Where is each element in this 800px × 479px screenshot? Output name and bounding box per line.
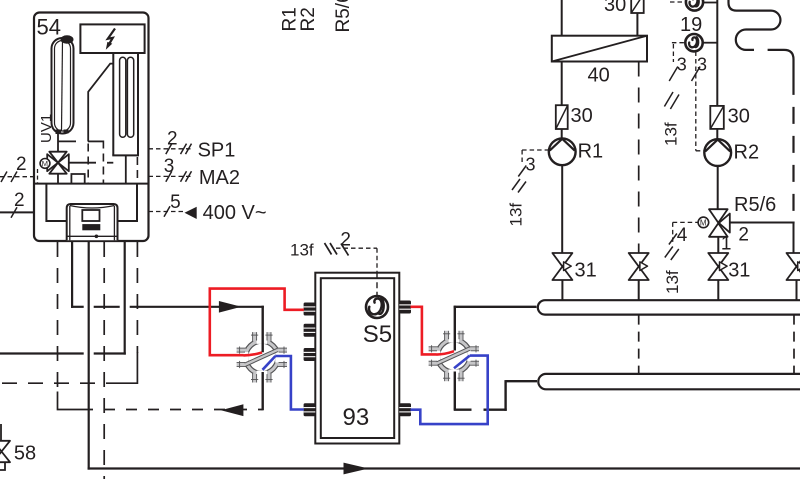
svg-text:1: 1 bbox=[721, 233, 732, 254]
pipe below filter to hx40 bbox=[636, 13, 638, 37]
svg-text:SP1: SP1 bbox=[198, 139, 236, 161]
svg-text:93: 93 bbox=[343, 404, 370, 431]
svg-text:30: 30 bbox=[571, 105, 593, 127]
dashed stub below tank right wall bbox=[136, 157, 138, 184]
return pipe exiting left bbox=[0, 352, 126, 354]
label S5 bbox=[363, 321, 392, 348]
drop line 4 dashed bbox=[103, 242, 105, 479]
heat exchanger coupling left bbox=[237, 332, 287, 382]
pipe R5/6 port 1 down bbox=[717, 237, 719, 254]
pipe line to heat exchanger 40 (left) bbox=[561, 0, 563, 37]
red pipe left loop bbox=[210, 289, 304, 356]
rotated label R1 (top) bbox=[280, 7, 301, 31]
lightning bolt bbox=[106, 29, 115, 50]
svg-text:2: 2 bbox=[14, 190, 25, 211]
motor M of UV1 bbox=[40, 159, 50, 169]
compressor bbox=[67, 204, 118, 240]
svg-text:400 V~: 400 V~ bbox=[203, 202, 267, 224]
black pipe from left exchanger bottom bbox=[262, 372, 264, 410]
compartment pipe left bbox=[46, 184, 66, 222]
header pipe 2 (return manifold) bbox=[538, 374, 800, 389]
connection SP1 bbox=[149, 129, 236, 162]
label UV1 bbox=[38, 114, 55, 143]
dashed return line with left arrow bbox=[82, 404, 263, 416]
label 93 bbox=[343, 404, 370, 431]
connection 400 V~ bbox=[149, 192, 267, 224]
pipe R5/6 port 2 to right bbox=[730, 223, 795, 255]
motor M of R5/6 bbox=[698, 217, 709, 228]
svg-text:13f: 13f bbox=[663, 270, 682, 294]
pump R1 bbox=[549, 129, 603, 165]
svg-text:13f: 13f bbox=[662, 122, 681, 146]
pipe bump inside compartment bbox=[71, 174, 84, 184]
drop line 6 dashed bbox=[121, 242, 137, 383]
connection MA2 bbox=[149, 156, 241, 189]
main pipe right branch bbox=[716, 0, 718, 106]
svg-text:19: 19 bbox=[680, 14, 702, 36]
svg-text:3: 3 bbox=[677, 54, 687, 74]
compartment pipe right bbox=[118, 184, 138, 222]
rotated label R2 (top) bbox=[298, 7, 319, 31]
mixing valve R5/6 bbox=[709, 194, 776, 254]
pool unit box 93 bbox=[315, 273, 399, 444]
pipe from tank bottom bbox=[125, 155, 127, 183]
svg-text:2: 2 bbox=[340, 230, 351, 251]
internal dashed vertical x103 bbox=[102, 141, 104, 184]
pump R2 bbox=[704, 129, 759, 166]
supply pipe to left exchanger with right arrow bbox=[71, 301, 264, 313]
svg-text:31: 31 bbox=[575, 260, 597, 282]
UV1 right port pipe bbox=[69, 162, 114, 164]
heater rod 1 bbox=[120, 57, 126, 137]
nipple left 2 bbox=[304, 324, 316, 337]
sensor 19 lower bbox=[672, 34, 717, 51]
pipe valve to header 1 bbox=[561, 280, 563, 301]
svg-text:R5/6: R5/6 bbox=[734, 194, 776, 216]
nipple left 1 bbox=[304, 303, 316, 316]
svg-text:R1: R1 bbox=[578, 140, 604, 162]
nipple right 1 bbox=[399, 301, 411, 314]
vessel (accumulator) bbox=[52, 35, 74, 134]
svg-text:30: 30 bbox=[604, 0, 626, 16]
svg-text:R2: R2 bbox=[734, 141, 760, 163]
filter 30 (above pump R1) bbox=[556, 105, 593, 129]
control cable 13f/4 to R5/6 bbox=[663, 222, 698, 294]
svg-text:4: 4 bbox=[677, 225, 688, 246]
svg-text:30: 30 bbox=[728, 106, 750, 128]
svg-text:58: 58 bbox=[14, 442, 36, 464]
connection 2 (left, solid pipe) bbox=[0, 190, 34, 218]
pipe valve to header 1 (right) bbox=[717, 280, 719, 301]
shut-off valve 31 (below R5/6) bbox=[708, 253, 750, 282]
dashed boundary between headers (middle) bbox=[638, 315, 640, 374]
heating coil bbox=[729, 0, 794, 212]
dashed boundary between headers (right) bbox=[793, 315, 795, 374]
sensor cable 13f/3 (left, to label) bbox=[662, 44, 687, 146]
pipe valve to header 1 (middle) bbox=[638, 280, 640, 301]
svg-text:2: 2 bbox=[167, 129, 178, 150]
heater rod 2 bbox=[127, 57, 133, 137]
svg-text:R5/6: R5/6 bbox=[333, 0, 354, 33]
svg-text:S5: S5 bbox=[363, 321, 392, 348]
drop line 3 solid (to bottom pipe) bbox=[88, 242, 90, 470]
blue pipe left side bbox=[263, 356, 304, 410]
nipple left 3 bbox=[304, 348, 316, 361]
control cable 13f/2 above box 93 bbox=[290, 230, 377, 273]
svg-text:13f: 13f bbox=[290, 241, 314, 260]
pipe pump R1 down to valve bbox=[561, 165, 563, 254]
header pipe 1 (supply manifold) bbox=[538, 300, 800, 314]
dashed pipe from hx40 right down bbox=[638, 62, 640, 255]
shut-off valve (far right) bbox=[787, 253, 800, 280]
svg-text:MA2: MA2 bbox=[199, 167, 240, 189]
black pipe from right exchanger bottom to header 2 bbox=[454, 372, 537, 411]
black pipe into left exchanger top bbox=[262, 306, 264, 353]
svg-text:31: 31 bbox=[728, 260, 750, 282]
nipple right 2 bbox=[399, 403, 411, 416]
svg-text:5: 5 bbox=[170, 192, 181, 213]
pipe hx40 to filter 30 bbox=[561, 62, 563, 106]
sensor S5 bbox=[366, 273, 388, 318]
shut-off valve (middle, unlabeled) bbox=[629, 253, 649, 280]
svg-text:M: M bbox=[42, 159, 48, 168]
svg-text:R2: R2 bbox=[298, 7, 319, 31]
heat pump unit 54 outer box bbox=[34, 13, 149, 242]
pipe to heater tank (diagonal) bbox=[88, 64, 113, 142]
immersion heater tank bbox=[112, 53, 139, 155]
safety valve 58 bbox=[0, 424, 36, 470]
red pipe right side bbox=[411, 307, 455, 355]
dashed line exiting left at y383 bbox=[0, 382, 121, 384]
filter 30 (above pump R2) bbox=[710, 106, 750, 129]
sensor 19 top bbox=[670, 0, 717, 36]
heat exchanger 40 bbox=[552, 36, 647, 87]
svg-text:54: 54 bbox=[37, 15, 61, 40]
blue pipe right side bbox=[411, 356, 488, 425]
filter 30 (top, on right line) bbox=[604, 0, 644, 16]
nipple left 4 bbox=[304, 403, 316, 416]
valve UV1 (3-way motor valve) bbox=[47, 134, 69, 184]
electric heater box bbox=[80, 24, 144, 53]
connection 2 (left, electrical dashed) bbox=[0, 154, 34, 182]
label 54 bbox=[37, 15, 61, 40]
drop line 5 solid bbox=[124, 242, 126, 355]
svg-text:2: 2 bbox=[16, 154, 27, 175]
svg-text:3: 3 bbox=[526, 155, 536, 175]
svg-text:13f: 13f bbox=[507, 203, 526, 227]
drop line 2 solid bbox=[71, 242, 73, 308]
bottom pipe with right arrow bbox=[88, 463, 800, 475]
pipe far right valve to header 1 bbox=[796, 280, 798, 301]
rotated label R5/6 (top) bbox=[333, 0, 354, 33]
svg-text:3: 3 bbox=[697, 54, 707, 74]
internal dashed vertical x88 bbox=[87, 144, 89, 184]
shut-off valve 31 (below R1) bbox=[552, 253, 596, 282]
svg-text:UV1: UV1 bbox=[38, 114, 55, 143]
svg-text:M: M bbox=[700, 218, 707, 227]
svg-text:2: 2 bbox=[738, 225, 749, 246]
sensor cable 3 (right, to pump R2) bbox=[692, 52, 708, 151]
drop line 1 dashed (from unit bottom) bbox=[58, 242, 83, 410]
heat exchanger coupling right bbox=[429, 331, 479, 381]
black pipe from right exchanger top to header 1 bbox=[454, 306, 537, 351]
control cable 13f/3 to pump R1 bbox=[507, 150, 550, 227]
pipe pump R2 down to valve R5/6 bbox=[717, 166, 719, 210]
dashed control line below M bbox=[37, 169, 39, 184]
svg-text:40: 40 bbox=[588, 64, 610, 86]
internal pipe horizontal y141 bbox=[58, 140, 104, 142]
svg-text:3: 3 bbox=[164, 156, 175, 177]
